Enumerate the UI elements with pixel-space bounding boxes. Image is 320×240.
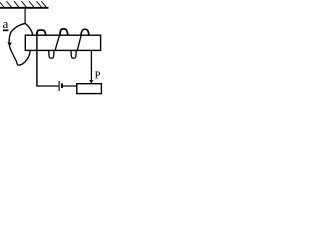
- wiper arrowhead: [89, 80, 93, 84]
- solenoid core rectangle U1 (occludes ring): [25, 35, 100, 50]
- coil turn 3: [81, 29, 89, 35]
- coil turn 1: [37, 30, 46, 35]
- ring a (hanging loop): [9, 23, 34, 65]
- ceiling support line: [0, 7, 49, 9]
- coil turn 2: [60, 29, 68, 35]
- coil turn 1 to 2 diagonal wire: [55, 36, 59, 50]
- coil left lead wire: [36, 32, 38, 86]
- label P: [95, 72, 100, 79]
- coil turn 1 bottom loop below core: [49, 51, 54, 58]
- coil right lead wire down to rheostat wiper: [90, 50, 92, 80]
- wire from battery to rheostat: [63, 85, 77, 87]
- label a: [3, 22, 8, 28]
- suspension thread: [24, 9, 26, 24]
- coil turn 2 bottom loop below core: [71, 51, 76, 58]
- battery B1 positive plate: [58, 81, 60, 91]
- serif bar under label a: [3, 29, 8, 31]
- bottom wire from coil to battery: [36, 85, 58, 87]
- current-direction arrowhead on ring: [7, 42, 12, 46]
- coil turn 2 to 3 diagonal wire: [77, 36, 81, 50]
- battery B1 negative plate: [61, 83, 63, 88]
- ceiling hatch strokes: [0, 1, 46, 7]
- rheostat box R1: [77, 84, 102, 94]
